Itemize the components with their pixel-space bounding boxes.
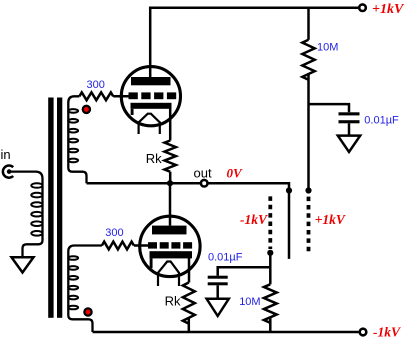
resistor 10M (bottom) [264,284,277,323]
ground (mid, under C2) [207,299,229,316]
terminal out [201,180,208,187]
resistor 300 (bottom) [102,242,134,250]
svg-text:Rk: Rk [146,151,162,166]
ground (right, under C1) [338,136,360,152]
capacitor C2 0.01uF (bottom) [208,276,228,286]
label Rk (bottom) [165,294,181,309]
wire V2 plate lead [169,183,172,225]
svg-text:300: 300 [105,227,123,239]
wire 10M to bottom rail [269,317,272,332]
wire V1 cathode drop to Rk [169,108,172,141]
wire C1 to ground [348,123,351,135]
resistor 300 (top) [79,92,113,100]
tube V1 filament [139,114,160,134]
svg-text:300: 300 [87,79,105,91]
label 10M (top) [317,42,338,54]
primary winding L1 [9,172,42,258]
label -1kV (mid, red) [240,212,268,227]
wire top rail +1kV [150,8,358,77]
svg-text:0.01µF: 0.01µF [208,252,243,264]
node dot on line C (+1kV stator) [305,187,311,193]
tube V2 envelope [140,216,200,276]
svg-text:10M: 10M [317,42,338,54]
label 10M (bottom) [239,296,260,308]
wire Rk to out node [169,172,172,184]
svg-text:10M: 10M [239,296,260,308]
dashed stator lead -1kV [268,196,272,249]
phasing dot (bottom winding, red) [84,308,91,315]
wire Rk bottom to rail [188,318,191,332]
label 300 (top) [87,79,105,91]
svg-text:+1kV: +1kV [372,2,405,17]
wire C2 to ground [216,285,219,299]
label 300 (bottom) [105,227,123,239]
dashed stator lead +1kV [307,197,311,252]
tube V2 plate [152,226,187,235]
svg-text:Rk: Rk [165,294,181,309]
tube V2 cathode bar [150,251,193,268]
label out [194,166,212,181]
label +1kV (mid, red) [315,212,346,227]
secondary winding L2a (top) [68,96,86,183]
transformer core [48,98,62,318]
secondary winding L2b (bottom) [68,246,102,333]
resistor Rk (bottom) [183,283,195,324]
wire line A solid to 10M [269,253,272,284]
svg-text:0V: 0V [227,166,244,181]
label 0V (red) [227,166,244,181]
svg-text:out: out [194,166,212,181]
phasing dot (top winding, red) [83,106,90,113]
label in [1,147,11,162]
wire bottom rail -1kV [93,331,359,334]
node dot line A [267,250,273,256]
wire 10M top lead from rail [307,8,310,40]
tube V1 grid [129,92,177,99]
node dot on line B [286,187,292,193]
tube V2 grid [148,242,192,248]
tube V1 cathode bar [131,103,172,115]
wire V2 cathode drop [188,257,191,283]
svg-text:in: in [1,147,11,162]
ground (left, primary) [12,257,34,272]
label -1kV (bottom right, red) [373,325,401,340]
label +1kV (top right, red) [372,2,405,17]
node dot out junction [167,180,173,186]
wire grid lead V2 [134,244,149,247]
wire grid lead V1 [113,95,129,98]
svg-text:+1kV: +1kV [315,212,346,227]
svg-text:-1kV: -1kV [373,325,401,340]
wire 10M bottom to node / line C solid [307,74,310,191]
resistor 10M (top) [302,40,314,80]
resistor Rk (top) [165,141,176,172]
capacitor C1 0.01uF top-right [339,112,360,123]
wire out line [87,183,290,259]
label Rk (top) [146,151,162,166]
svg-text:-1kV: -1kV [240,212,268,227]
terminal in (connector) [3,165,13,177]
wire C2 cap branch [218,267,271,276]
tube V2 filament [158,262,179,287]
svg-text:0.01µF: 0.01µF [364,115,399,127]
terminal -1kV [360,329,367,336]
tube V1 plate [131,77,171,85]
label 0.01uF (bottom) [208,252,243,264]
wire branch to capacitor C1 [309,104,350,112]
tube V1 envelope [121,67,180,126]
label 0.01uF (top right) [364,115,399,127]
terminal +1kV top right [359,4,366,11]
